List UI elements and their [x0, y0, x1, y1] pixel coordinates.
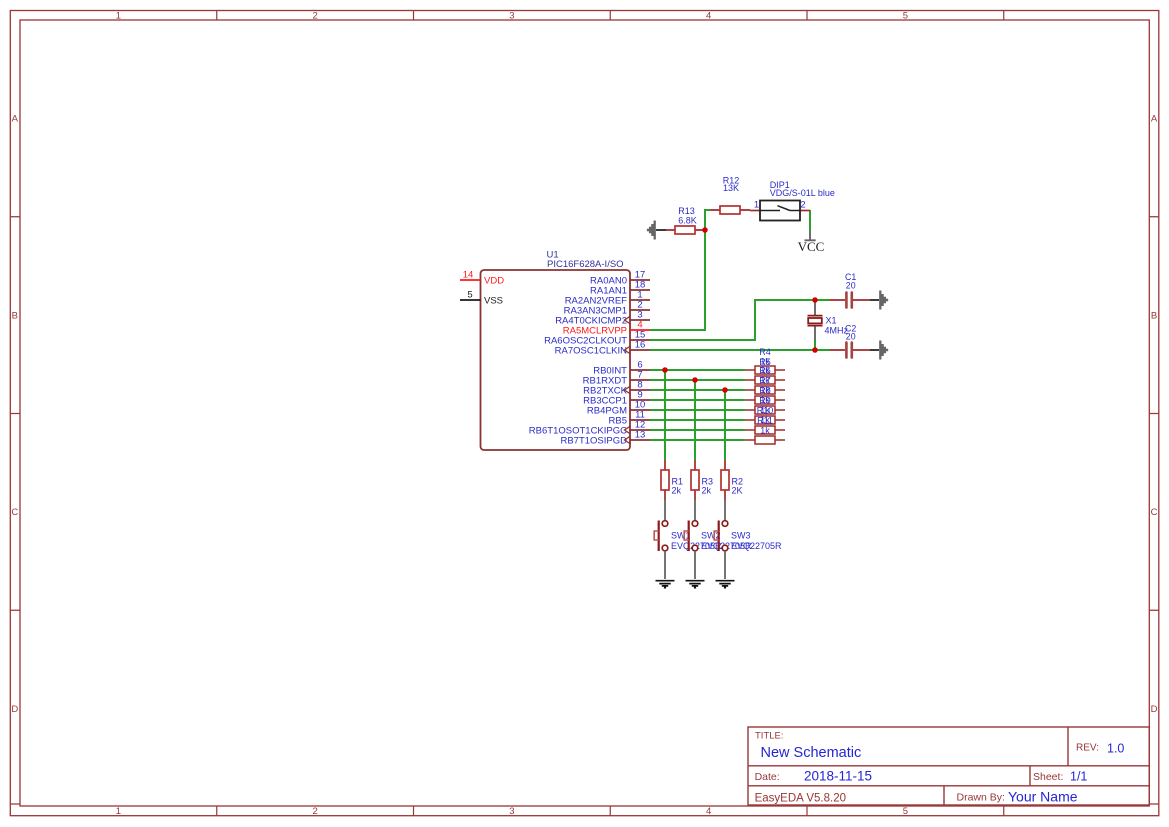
junction node MCLR/R13/R12 [702, 227, 708, 233]
wire OSC1 pin16 to C2/X1 [650, 349, 830, 351]
svg-text:2K: 2K [732, 486, 743, 496]
ground below SW2 [686, 581, 705, 588]
svg-text:5: 5 [903, 806, 908, 817]
svg-text:RB7T1OSIPGD: RB7T1OSIPGD [560, 435, 627, 446]
svg-text:B: B [1151, 310, 1157, 321]
ground (sideways) at C1 [880, 291, 887, 310]
U1 pin 15 RA6OSC2CLKOUT [630, 339, 650, 341]
svg-text:6.8K: 6.8K [678, 215, 697, 225]
svg-text:1: 1 [116, 806, 121, 817]
svg-text:VSS: VSS [484, 296, 503, 307]
svg-text:C: C [1151, 507, 1158, 518]
capacitor C1 [830, 299, 870, 301]
switch DIP1 [750, 210, 760, 212]
wire RB7 row [650, 439, 745, 441]
svg-text:20: 20 [846, 281, 856, 291]
wire RB5 row [650, 419, 745, 421]
svg-text:4: 4 [706, 806, 711, 817]
frame row ticks [10, 217, 1159, 804]
svg-text:VDG/S-01L blue: VDG/S-01L blue [770, 188, 835, 198]
svg-text:B: B [12, 310, 18, 321]
junction node RB row x=665 [662, 367, 668, 373]
svg-text:13: 13 [635, 429, 646, 440]
U1 pin 11 RB5 [630, 419, 650, 421]
resistor R11 [745, 439, 785, 441]
switch SW2 [694, 500, 696, 521]
svg-text:3: 3 [509, 806, 514, 817]
svg-text:SW1: SW1 [671, 531, 691, 541]
resistor R2 [724, 460, 726, 500]
U1 pin 18 RA1AN1 [630, 289, 650, 291]
svg-text:2: 2 [800, 200, 805, 211]
svg-text:Sheet:: Sheet: [1033, 771, 1063, 783]
svg-text:SW2: SW2 [701, 531, 721, 541]
svg-text:EVQ22705R: EVQ22705R [731, 541, 782, 551]
U1 pin 1 RA2AN2VREF [630, 299, 650, 301]
wire C2 to ground [870, 349, 879, 351]
svg-text:2k: 2k [672, 486, 682, 496]
resistor R6 [745, 389, 785, 391]
wire SW3 to ground [724, 551, 726, 579]
wire X1 bottom to node [814, 340, 816, 350]
wire RB6 row [650, 429, 745, 431]
svg-text:2: 2 [312, 10, 317, 21]
svg-text:A: A [12, 114, 19, 125]
wire OSC2 pin15 to C1/X1 [650, 300, 830, 340]
svg-text:2018-11-15: 2018-11-15 [804, 769, 872, 784]
svg-text:1k: 1k [760, 405, 770, 415]
svg-text:16: 16 [635, 339, 646, 350]
svg-text:Drawn By:: Drawn By: [957, 791, 1005, 803]
ground (sideways) at R13 [648, 221, 655, 240]
svg-text:1k: 1k [760, 385, 770, 395]
junction node OSC2/C1/X1 [812, 297, 818, 303]
resistor R10 [745, 429, 785, 431]
wire RB0 drop to R1 [664, 370, 666, 460]
U1 pin 6 RB0INT [630, 369, 650, 371]
svg-text:1k: 1k [760, 415, 770, 425]
svg-text:1: 1 [754, 200, 759, 211]
U1 pin 3 RA4T0CKICMP2 [630, 319, 650, 321]
switch SW3 [724, 500, 726, 521]
svg-text:1.0: 1.0 [1107, 742, 1124, 756]
U1 pin 9 RB3CCP1 [630, 399, 650, 401]
U1 pin 17 RA0AN0 [630, 279, 650, 281]
svg-text:14: 14 [463, 269, 474, 280]
wire RB0 row [650, 369, 745, 371]
junction node RB row x=725 [722, 387, 728, 393]
svg-text:1: 1 [116, 10, 121, 21]
resistor R13 [666, 229, 705, 231]
resistor R3 [694, 460, 696, 500]
svg-text:TITLE:: TITLE: [755, 731, 784, 742]
wire SW2 to ground [694, 551, 696, 579]
U1 pin 5 VSS [460, 299, 481, 301]
svg-text:13K: 13K [723, 183, 739, 193]
svg-text:D: D [1151, 704, 1158, 715]
resistor R7 [745, 399, 785, 401]
svg-text:VCC: VCC [798, 239, 825, 254]
capacitor C2 [830, 349, 870, 351]
svg-text:New Schematic: New Schematic [761, 745, 862, 761]
svg-text:1k: 1k [760, 365, 770, 375]
wire RB1 drop to R3 [694, 380, 696, 460]
svg-text:X1: X1 [826, 316, 837, 326]
title block [748, 727, 1149, 805]
U1 pin 16 RA7OSC1CLKIN [630, 349, 650, 351]
svg-text:4: 4 [706, 10, 711, 21]
svg-text:1k: 1k [760, 395, 770, 405]
resistor R12 [710, 209, 750, 211]
svg-text:2: 2 [312, 806, 317, 817]
junction node OSC1/C2/X1 [812, 347, 818, 353]
svg-text:Your Name: Your Name [1008, 788, 1078, 804]
U1 pin 7 RB1RXDT [630, 379, 650, 381]
resistor R8 [745, 409, 785, 411]
svg-text:5: 5 [903, 10, 908, 21]
wire RB1 row [650, 379, 745, 381]
resistor R4 [745, 369, 785, 371]
ground below SW3 [716, 581, 735, 588]
wire RB2 row [650, 389, 745, 391]
wire RB2 drop to R2 [724, 390, 726, 460]
svg-text:Date:: Date: [755, 771, 780, 783]
resistor R5 [745, 379, 785, 381]
wire MCLR net pin4 to R12/R13 [650, 210, 710, 330]
ground below SW1 [656, 581, 675, 588]
svg-text:SW3: SW3 [731, 531, 751, 541]
svg-text:RA7OSC1CLKIN: RA7OSC1CLKIN [555, 345, 627, 356]
U1 pin 12 RB6T1OSOT1CKIPGC [630, 429, 650, 431]
svg-text:1k: 1k [760, 375, 770, 385]
switch SW1 [664, 500, 666, 521]
svg-text:VDD: VDD [484, 276, 504, 287]
ground (sideways) at C2 [880, 341, 887, 360]
frame column ticks [217, 11, 1004, 816]
wire SW1 to ground [664, 551, 666, 579]
power VCC [805, 231, 816, 240]
wire DIP1 to VCC [809, 210, 811, 231]
wire gnd to R13 [656, 229, 666, 231]
svg-text:20: 20 [846, 332, 856, 342]
svg-text:A: A [1151, 114, 1158, 125]
svg-text:1/1: 1/1 [1070, 769, 1087, 783]
resistor R1 [664, 460, 666, 500]
svg-text:1k: 1k [760, 425, 770, 435]
U1 pin 10 RB4PGM [630, 409, 650, 411]
crystal X1 [814, 302, 816, 340]
U1 pin 2 RA3AN3CMP1 [630, 309, 650, 311]
U1 pin 14 VDD [460, 279, 481, 281]
op-amp U1 body: microcontroller PIC16F628A [481, 270, 631, 450]
wire C1 to ground [870, 299, 879, 301]
wire RB3 row [650, 399, 745, 401]
U1 pin 8 RB2TXCK [630, 389, 650, 391]
svg-text:EasyEDA V5.8.20: EasyEDA V5.8.20 [755, 793, 846, 805]
junction node RB row x=695 [692, 377, 698, 383]
svg-text:5: 5 [467, 289, 472, 300]
resistor R9 [745, 419, 785, 421]
U1 pin 4 RA5MCLRVPP [630, 329, 650, 331]
svg-text:C: C [11, 507, 18, 518]
svg-text:REV:: REV: [1076, 742, 1099, 753]
U1 pin 13 RB7T1OSIPGD [630, 439, 650, 441]
svg-text:D: D [11, 704, 18, 715]
svg-text:2k: 2k [702, 486, 712, 496]
wire RB4 row [650, 409, 745, 411]
svg-text:PIC16F628A-I/SO: PIC16F628A-I/SO [547, 259, 624, 270]
svg-text:3: 3 [509, 10, 514, 21]
